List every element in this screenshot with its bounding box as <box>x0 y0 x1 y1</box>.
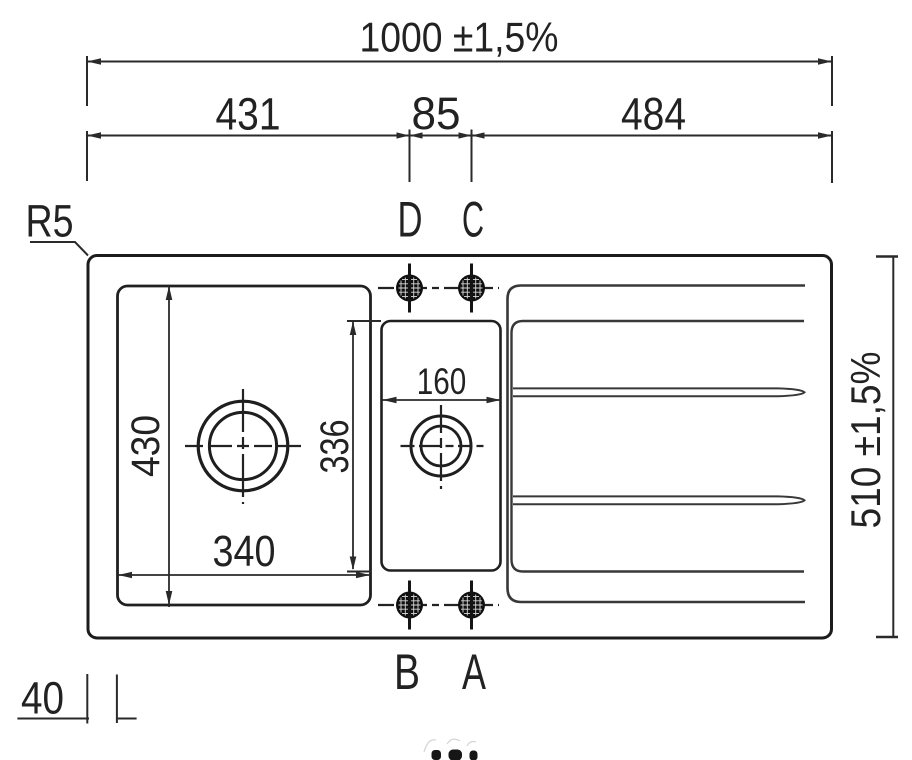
svg-text:B: B <box>394 644 420 700</box>
svg-text:160: 160 <box>417 361 467 402</box>
mounting hole D <box>396 264 423 313</box>
svg-text:430: 430 <box>124 415 168 477</box>
left drain centerlines <box>185 389 302 504</box>
mounting hole B <box>396 581 423 630</box>
dimension 430 line <box>166 286 173 607</box>
drainboard inner boundary <box>512 321 805 572</box>
left basin drain inner circle <box>209 412 276 479</box>
middle drain centerlines <box>401 405 484 489</box>
dimension 40 <box>17 674 136 724</box>
dimension 1000 line <box>87 56 832 106</box>
left basin <box>118 286 371 605</box>
top holes centerline <box>378 287 499 289</box>
svg-text:510 ±1,5%: 510 ±1,5% <box>842 352 889 529</box>
middle basin drain outer circle <box>411 416 471 476</box>
svg-text:A: A <box>462 644 486 700</box>
svg-text:431: 431 <box>216 89 281 140</box>
dimension row 431 / 85 / 484 line <box>87 130 832 184</box>
svg-text:C: C <box>462 192 484 248</box>
dimension 510 line <box>876 257 898 638</box>
sink outline <box>88 256 832 639</box>
partial cut-off text at bottom <box>432 750 478 760</box>
left basin drain outer circle <box>198 401 288 491</box>
middle basin <box>382 321 501 571</box>
dimension 336 line <box>347 321 381 572</box>
svg-text:R5: R5 <box>26 196 74 247</box>
svg-text:40: 40 <box>21 673 64 724</box>
svg-text:340: 340 <box>213 527 276 576</box>
dimension 340 line <box>118 572 370 578</box>
svg-text:85: 85 <box>412 88 461 139</box>
drainboard groove slot 1 <box>513 388 805 396</box>
drainboard outer boundary <box>508 286 806 603</box>
middle basin drain inner circle <box>421 426 461 466</box>
svg-text:336: 336 <box>313 420 357 474</box>
mounting hole C <box>458 264 485 313</box>
svg-text:484: 484 <box>621 89 686 140</box>
drainboard groove slot 2 <box>513 496 805 504</box>
dimension 160 line <box>383 397 501 403</box>
leader R5 <box>30 242 88 256</box>
svg-text:1000 ±1,5%: 1000 ±1,5% <box>360 14 559 61</box>
svg-text:D: D <box>398 192 423 248</box>
bottom holes centerline <box>378 604 499 606</box>
mounting hole A <box>458 581 485 630</box>
